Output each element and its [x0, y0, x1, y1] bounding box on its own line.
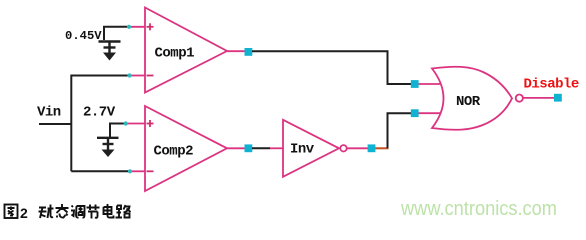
svg-text:Comp2: Comp2 [154, 144, 194, 160]
svg-text:Inv: Inv [290, 142, 315, 158]
junction square NOR input A [411, 80, 419, 88]
wire Vin vertical bus [71, 76, 129, 172]
junction square Inv output [368, 144, 376, 152]
svg-text:www.cntronics.com: www.cntronics.com [400, 198, 557, 220]
动 [39, 205, 54, 219]
node dot Comp1 - hotspot [127, 73, 131, 77]
svg-text:2.7V: 2.7V [83, 105, 116, 121]
wire Vin to Comp2 - input [71, 170, 130, 172]
ground GND2 [97, 138, 119, 151]
NOR gate U3 [432, 67, 512, 130]
电 [104, 204, 114, 218]
态 [56, 204, 69, 218]
op-amp Comp2 [145, 106, 227, 191]
图 [5, 205, 18, 219]
pin stub Comp1 output [227, 50, 246, 52]
pin stub Inv output [347, 147, 368, 149]
wire Vin input [39, 123, 71, 125]
junction square NOR input B [411, 109, 419, 117]
pin stub Comp2 - [130, 170, 145, 172]
pin stub Comp2 output [227, 147, 246, 149]
svg-text:NOR: NOR [456, 94, 481, 110]
plus mark Comp1 [147, 23, 154, 30]
wire up to NOR input B [388, 113, 412, 148]
节 [87, 205, 100, 219]
junction square Comp2 output [245, 144, 253, 152]
wire Comp1 output to NOR input A [252, 51, 412, 84]
node dot Comp2 + hotspot [124, 121, 128, 125]
node dot Comp2 - hotspot [128, 169, 132, 173]
svg-text:0.45V: 0.45V [65, 29, 102, 43]
node dot Comp1 + hotspot [127, 25, 131, 29]
bubble Inv output [340, 145, 346, 151]
svg-text:Comp1: Comp1 [155, 46, 195, 62]
pin stub Inv input [270, 147, 283, 149]
svg-text:Disable: Disable [524, 77, 579, 93]
调 [71, 206, 85, 218]
wire Comp2 output to Inv input [252, 147, 270, 149]
pin stub Comp1 + [129, 26, 146, 28]
junction square Comp1 output [245, 48, 253, 56]
junction square Disable [554, 94, 562, 102]
wire Inv output to NOR input B (orange segment) [375, 147, 388, 149]
bubble NOR output [516, 95, 523, 102]
inverter Inv [283, 120, 339, 177]
pin stub NOR input B [419, 112, 442, 114]
wire 2.7V to Comp2 + input [110, 124, 125, 138]
caption 图2 动态调节电路 (drawn strokes, CJK not available) [5, 204, 131, 221]
pin stub Comp1 - [129, 75, 145, 77]
ground GND1 [99, 42, 121, 54]
minus mark Comp1 [147, 75, 154, 77]
plus mark Comp2 [147, 120, 154, 127]
pin stub Comp2 + [125, 123, 145, 125]
minus mark Comp2 [147, 170, 154, 172]
op-amp Comp1 [145, 8, 227, 93]
svg-text:2: 2 [20, 205, 28, 221]
wire NOR output to Disable [523, 97, 555, 99]
wire 0.45V to Comp1 + input [104, 27, 129, 40]
路 [116, 205, 131, 218]
pin stub NOR input A [419, 83, 442, 85]
svg-text:Vin: Vin [37, 105, 61, 121]
